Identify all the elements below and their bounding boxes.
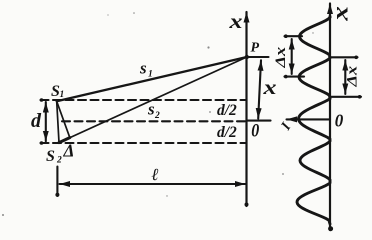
- left fringe-width tick (lower maximum): [285, 76, 305, 78]
- ray s1 from S1 to P: [57, 57, 247, 101]
- slit line S1-S2: [57, 101, 59, 142]
- screen axis bottom end dot: [245, 203, 249, 207]
- svg-text:ℓ: ℓ: [152, 165, 159, 184]
- right fringe-width tick (lower minimum): [330, 96, 361, 98]
- svg-text:0: 0: [335, 111, 344, 131]
- wire: top dashed line at S1 level: [41, 99, 247, 101]
- dot at left end of top dashed line: [40, 98, 44, 102]
- x measure arrow between P and O: [258, 60, 261, 118]
- measure arrow d (slit separation): [45, 102, 47, 141]
- dot left tick upper: [284, 34, 288, 38]
- ray s2 from S2 to P: [59, 57, 247, 143]
- svg-text:d/2: d/2: [217, 124, 237, 141]
- scan noise specks: [2, 12, 314, 216]
- svg-text:x: x: [228, 11, 242, 33]
- svg-text:Δ: Δ: [63, 141, 75, 161]
- svg-text:x: x: [262, 75, 276, 99]
- stub line below S2: [56, 167, 58, 197]
- svg-text:Δx: Δx: [345, 66, 361, 88]
- tick at O: [247, 120, 271, 122]
- measure arrow Delta-x left (between maxima): [291, 39, 293, 74]
- svg-text:d: d: [31, 110, 42, 132]
- svg-text:1: 1: [148, 70, 153, 80]
- left fringe-width tick (upper maximum): [285, 35, 303, 37]
- svg-text:Δx: Δx: [273, 47, 289, 69]
- perpendicular from S1 to foot on S2P: [57, 101, 70, 137]
- svg-text:S: S: [46, 148, 55, 165]
- wire: bottom dashed line at S2 level: [41, 142, 247, 144]
- dot at left end of bottom dashed line: [40, 141, 44, 145]
- node P (point on screen): [245, 55, 249, 59]
- intensity graph axis (vertical, right side): [329, 4, 331, 231]
- I axis arrow (intensity, pointing left): [287, 118, 331, 120]
- svg-text:1: 1: [60, 90, 65, 100]
- screen axis (vertical line with arrow, main diagram): [245, 12, 247, 206]
- svg-text:d/2: d/2: [217, 102, 237, 119]
- dot right tick upper: [354, 56, 358, 60]
- intensity cos^2 curve: [297, 17, 330, 225]
- tick at P: [247, 56, 269, 58]
- right fringe-width tick (upper minimum): [330, 56, 358, 58]
- svg-text:P: P: [251, 40, 260, 55]
- svg-text:2: 2: [154, 111, 160, 121]
- graph axis bottom dot: [328, 226, 333, 231]
- dot right tick lower: [358, 95, 362, 99]
- svg-text:s: s: [147, 100, 155, 119]
- dot left tick lower: [284, 75, 288, 79]
- svg-text:0: 0: [251, 120, 259, 141]
- path difference segment Delta (S2 to foot): [59, 138, 70, 143]
- svg-text:s: s: [139, 59, 147, 78]
- measure arrow l (slits to screen distance): [60, 183, 246, 185]
- svg-text:2: 2: [56, 156, 62, 166]
- svg-text:x: x: [328, 6, 353, 22]
- measure arrow Delta-x right (between minima): [344, 60, 346, 94]
- dot at bottom of stub: [55, 193, 59, 197]
- wire: middle dashed centerline: [62, 120, 247, 122]
